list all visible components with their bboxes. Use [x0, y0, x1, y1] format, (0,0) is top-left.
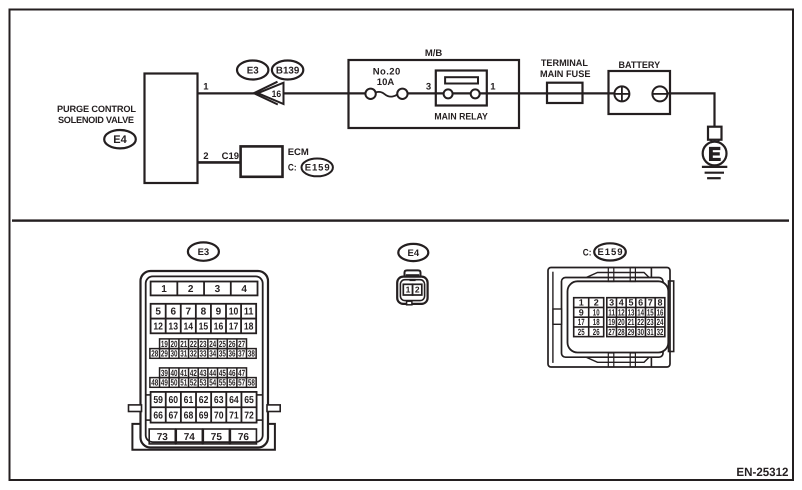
main relay box	[436, 71, 487, 106]
svg-text:6: 6	[638, 298, 643, 308]
label: C: with connector oval E159 (schematic)	[288, 159, 333, 177]
svg-text:63: 63	[214, 395, 224, 406]
svg-text:MAIN RELAY: MAIN RELAY	[434, 112, 488, 123]
svg-text:14: 14	[637, 307, 644, 317]
svg-text:10A: 10A	[377, 77, 395, 88]
svg-text:72: 72	[244, 410, 254, 421]
connector oval E4 (pinout title)	[398, 244, 428, 261]
connector oval B139	[272, 61, 303, 80]
svg-text:3: 3	[426, 81, 431, 92]
svg-text:53: 53	[200, 378, 207, 388]
wire: pin2 solenoid valve to ECM connector C19	[197, 161, 241, 164]
svg-text:23: 23	[647, 317, 654, 327]
svg-text:25: 25	[578, 327, 585, 337]
svg-text:32: 32	[190, 349, 197, 359]
svg-text:4: 4	[241, 284, 247, 295]
svg-text:BATTERY: BATTERY	[619, 60, 661, 71]
svg-text:21: 21	[628, 317, 635, 327]
svg-text:55: 55	[219, 378, 226, 388]
svg-text:57: 57	[238, 378, 245, 388]
svg-text:66: 66	[153, 410, 163, 421]
E3 lower skirt	[132, 424, 275, 450]
connector oval E3 (schematic)	[237, 61, 268, 80]
E159 pin grid right (3-8 ... 27-32)	[607, 298, 665, 337]
svg-text:7: 7	[186, 307, 192, 318]
svg-text:12: 12	[618, 307, 625, 317]
svg-text:1: 1	[579, 298, 584, 308]
connector oval E4 (schematic)	[104, 130, 136, 148]
svg-text:2: 2	[415, 285, 420, 295]
label: PURGE CONTROL SOLENOID VALVE	[57, 104, 136, 125]
svg-text:2: 2	[203, 151, 208, 162]
purge control solenoid valve box	[145, 74, 198, 184]
svg-text:C:: C:	[288, 163, 297, 174]
svg-text:56: 56	[229, 378, 236, 388]
svg-text:1: 1	[203, 82, 209, 93]
svg-text:20: 20	[171, 339, 178, 349]
svg-text:35: 35	[219, 349, 226, 359]
E4 pin cells 1 2	[403, 284, 422, 295]
svg-text:33: 33	[200, 349, 207, 359]
svg-text:22: 22	[190, 339, 197, 349]
svg-text:1: 1	[490, 81, 496, 92]
svg-text:27: 27	[238, 339, 245, 349]
svg-text:E4: E4	[113, 134, 127, 146]
svg-text:50: 50	[171, 378, 178, 388]
svg-text:12: 12	[153, 321, 163, 332]
svg-text:46: 46	[229, 368, 236, 378]
svg-text:5: 5	[155, 307, 161, 318]
svg-text:59: 59	[153, 395, 163, 406]
svg-text:21: 21	[180, 339, 187, 349]
svg-text:18: 18	[593, 317, 600, 327]
svg-text:B139: B139	[276, 65, 300, 76]
E3 pin row 73-76	[149, 429, 256, 444]
E3 connector body	[141, 271, 269, 448]
svg-text:22: 22	[637, 317, 644, 327]
svg-text:E3: E3	[198, 247, 210, 258]
svg-text:E4: E4	[407, 248, 419, 259]
svg-text:C:: C:	[583, 248, 592, 259]
svg-text:14: 14	[184, 321, 194, 332]
svg-text:24: 24	[657, 317, 664, 327]
svg-text:13: 13	[168, 321, 178, 332]
svg-text:2: 2	[594, 298, 599, 308]
svg-text:6: 6	[170, 307, 176, 318]
svg-text:TERMINAL: TERMINAL	[541, 58, 588, 69]
svg-text:EN-25312: EN-25312	[736, 465, 788, 479]
E159 pin grid left (1,2,9,10,17,18,25,26)	[574, 298, 604, 337]
in-line connector symbol 16 (triangle)	[254, 82, 284, 105]
svg-text:60: 60	[169, 395, 179, 406]
svg-text:52: 52	[190, 378, 197, 388]
svg-text:17: 17	[578, 317, 585, 327]
svg-text:32: 32	[657, 327, 664, 337]
svg-text:36: 36	[229, 349, 236, 359]
svg-text:37: 37	[238, 349, 245, 359]
svg-text:54: 54	[209, 378, 216, 388]
E3 pin rows 59-72 shelf	[146, 395, 263, 420]
E3 left latch tab	[129, 405, 142, 412]
ECM connector box C19	[241, 146, 283, 176]
svg-text:E3: E3	[247, 65, 260, 76]
svg-text:MAIN FUSE: MAIN FUSE	[540, 69, 591, 80]
svg-text:62: 62	[199, 395, 209, 406]
svg-text:40: 40	[171, 368, 178, 378]
E3 pin row 19-27	[160, 339, 247, 349]
svg-text:19: 19	[608, 317, 615, 327]
svg-text:29: 29	[628, 327, 635, 337]
svg-text:10: 10	[593, 307, 600, 317]
svg-text:25: 25	[219, 339, 226, 349]
connector oval E159 (pinout title)	[594, 243, 626, 260]
svg-text:8: 8	[201, 307, 207, 318]
svg-text:8: 8	[657, 298, 662, 308]
terminal main fuse box	[547, 83, 583, 103]
svg-text:26: 26	[229, 339, 236, 349]
svg-text:47: 47	[238, 368, 245, 378]
svg-text:20: 20	[618, 317, 625, 327]
svg-text:76: 76	[238, 432, 250, 443]
svg-text:73: 73	[157, 432, 169, 443]
svg-text:E159: E159	[598, 247, 623, 258]
E3 pin row 48-58	[150, 378, 256, 388]
svg-text:13: 13	[628, 307, 635, 317]
battery	[609, 71, 671, 114]
svg-text:SOLENOID VALVE: SOLENOID VALVE	[58, 115, 134, 125]
svg-text:4: 4	[619, 298, 624, 308]
svg-text:7: 7	[648, 298, 653, 308]
svg-text:26: 26	[593, 327, 600, 337]
E3 right latch tab	[267, 405, 280, 412]
M/B fuse box outline	[349, 60, 520, 128]
wire: battery - terminal to ground drop	[667, 93, 714, 127]
svg-text:E: E	[708, 145, 721, 166]
ground E symbol	[702, 127, 727, 179]
svg-text:C19: C19	[222, 151, 239, 162]
svg-text:70: 70	[214, 410, 224, 421]
svg-text:PURGE CONTROL: PURGE CONTROL	[57, 104, 136, 114]
svg-text:5: 5	[628, 298, 633, 308]
svg-text:28: 28	[618, 327, 625, 337]
fuse No.20 10A	[349, 66, 444, 99]
svg-text:49: 49	[161, 378, 168, 388]
svg-text:1: 1	[406, 285, 411, 295]
svg-text:23: 23	[200, 339, 207, 349]
section divider	[12, 219, 789, 221]
svg-text:3: 3	[609, 298, 614, 308]
svg-text:2: 2	[188, 284, 194, 295]
E4 connector body	[397, 270, 427, 304]
svg-text:44: 44	[209, 368, 216, 378]
svg-text:43: 43	[200, 368, 207, 378]
label: TERMINAL MAIN FUSE	[540, 58, 591, 80]
svg-text:31: 31	[647, 327, 654, 337]
svg-text:ECM: ECM	[288, 147, 309, 158]
svg-text:39: 39	[161, 368, 168, 378]
svg-text:61: 61	[184, 395, 194, 406]
svg-text:19: 19	[161, 339, 168, 349]
svg-text:64: 64	[229, 395, 239, 406]
svg-text:28: 28	[151, 349, 158, 359]
E3 pin rows 59-72	[151, 392, 257, 423]
svg-text:58: 58	[248, 378, 255, 388]
connector oval E3 (pinout title)	[188, 242, 219, 260]
E3 pin rows 5-18	[151, 304, 257, 334]
svg-text:1: 1	[161, 284, 167, 295]
svg-text:75: 75	[211, 432, 223, 443]
svg-text:74: 74	[184, 432, 196, 443]
E3 pin row 1-4	[151, 282, 258, 296]
svg-text:No.20: No.20	[373, 66, 401, 77]
wire: pin1 solenoid valve to connector arrow	[197, 92, 255, 94]
wire: arrow to M/B box	[284, 92, 349, 94]
svg-text:31: 31	[180, 349, 187, 359]
svg-text:11: 11	[608, 307, 615, 317]
svg-text:24: 24	[209, 339, 216, 349]
svg-text:16: 16	[657, 307, 664, 317]
svg-text:41: 41	[180, 368, 187, 378]
svg-text:42: 42	[190, 368, 197, 378]
svg-text:15: 15	[199, 321, 209, 332]
E159 connector body	[548, 268, 674, 368]
E3 pin row 39-47	[160, 368, 247, 378]
svg-text:18: 18	[244, 321, 254, 332]
svg-text:45: 45	[219, 368, 226, 378]
svg-text:9: 9	[216, 307, 222, 318]
wire: relay pin1 through M/B wall and terminal main fuse to battery +	[480, 92, 615, 94]
svg-text:3: 3	[215, 284, 221, 295]
svg-text:68: 68	[184, 410, 194, 421]
svg-text:34: 34	[209, 349, 216, 359]
svg-text:27: 27	[608, 327, 615, 337]
svg-text:30: 30	[637, 327, 644, 337]
svg-text:17: 17	[229, 321, 239, 332]
svg-text:29: 29	[161, 349, 168, 359]
svg-text:11: 11	[244, 307, 254, 318]
svg-text:9: 9	[579, 307, 584, 317]
svg-text:48: 48	[151, 378, 158, 388]
svg-text:E159: E159	[305, 163, 330, 174]
svg-text:30: 30	[171, 349, 178, 359]
svg-text:69: 69	[199, 410, 209, 421]
svg-text:65: 65	[244, 395, 254, 406]
svg-text:38: 38	[248, 349, 255, 359]
svg-text:15: 15	[647, 307, 654, 317]
svg-text:71: 71	[229, 410, 239, 421]
E3 pin row 28-38	[150, 349, 256, 359]
svg-text:51: 51	[180, 378, 187, 388]
svg-text:M/B: M/B	[425, 48, 443, 59]
svg-text:10: 10	[229, 307, 239, 318]
svg-text:16: 16	[272, 88, 282, 99]
svg-text:67: 67	[169, 410, 179, 421]
svg-text:16: 16	[214, 321, 224, 332]
